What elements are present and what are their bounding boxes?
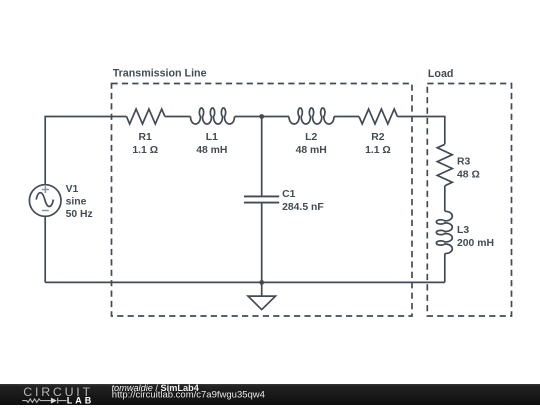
node A junction dot	[259, 114, 264, 119]
wire R1 to L1	[165, 116, 191, 118]
svg-text:48 mH: 48 mH	[196, 145, 227, 156]
svg-text:L1: L1	[206, 132, 218, 143]
wire V1 top to R1	[45, 117, 126, 185]
bottom rail junction dot	[259, 280, 264, 285]
svg-text:C1: C1	[282, 189, 296, 200]
svg-text:Transmission Line: Transmission Line	[113, 68, 207, 80]
voltage source V1	[29, 185, 61, 217]
svg-text:284.5 nF: 284.5 nF	[282, 202, 324, 213]
wire R3 to L3	[444, 186, 446, 212]
wire L3 down to bottom rail corner	[444, 254, 446, 283]
svg-text:1.1 Ω: 1.1 Ω	[365, 145, 391, 156]
svg-text:1.1 Ω: 1.1 Ω	[132, 145, 158, 156]
resistor R3	[437, 144, 452, 186]
svg-text:http://circuitlab.com/c7a9fwgu: http://circuitlab.com/c7a9fwgu35qw4	[112, 389, 265, 400]
wire node A to C1 top plate	[261, 117, 263, 197]
svg-text:48 Ω: 48 Ω	[457, 169, 480, 180]
wire bottom rail	[45, 281, 445, 283]
svg-text:sine: sine	[66, 196, 87, 207]
svg-text:L3: L3	[457, 225, 469, 236]
svg-text:LAB: LAB	[67, 395, 95, 405]
wire L2 to R2	[334, 116, 359, 118]
inductor L3	[436, 211, 452, 253]
svg-text:L2: L2	[305, 132, 317, 143]
svg-text:50 Hz: 50 Hz	[66, 209, 93, 220]
Load box	[427, 84, 511, 317]
svg-text:R2: R2	[371, 132, 385, 143]
svg-text:Load: Load	[428, 68, 454, 80]
resistor R1	[127, 109, 165, 124]
svg-text:R3: R3	[457, 157, 471, 168]
svg-text:R1: R1	[139, 132, 153, 143]
wire C1 bottom plate to bottom rail	[261, 203, 263, 283]
ground	[248, 282, 276, 309]
resistor R2	[359, 109, 397, 124]
capacitor C1	[244, 196, 279, 202]
svg-text:48 mH: 48 mH	[296, 145, 327, 156]
wire V1 bottom to bottom rail	[44, 216, 46, 282]
Transmission Line box	[112, 84, 413, 317]
logo resistor and diode symbol	[22, 398, 66, 404]
inductor L1	[191, 108, 235, 124]
wire L1 to node A to L2	[235, 116, 290, 118]
wire R2 to right rail down to R3	[397, 117, 444, 145]
svg-text:200 mH: 200 mH	[457, 238, 494, 249]
svg-text:V1: V1	[66, 184, 79, 195]
inductor L2	[289, 108, 334, 124]
